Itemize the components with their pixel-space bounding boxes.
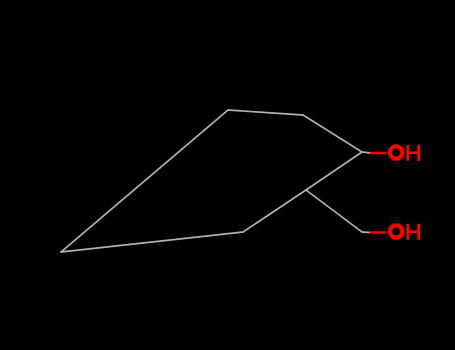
atom label O2 (lower OH) — [390, 225, 402, 237]
bond G-D — [243, 190, 306, 232]
bond D-E — [306, 190, 362, 232]
bond C-D — [306, 152, 362, 190]
bond B-C — [303, 115, 362, 152]
bond A-B top edge — [228, 110, 303, 115]
bond C-O1 gray half — [362, 152, 371, 153]
atom label H2 — [406, 224, 420, 240]
atom label H1 — [406, 145, 420, 161]
bond F-A long diagonal — [61, 110, 228, 252]
atom label O1 (upper OH) — [390, 146, 402, 158]
bond F-G bottom edge — [61, 232, 243, 252]
bond O2 red half — [370, 231, 387, 234]
wire — [61, 110, 371, 252]
bond O1 red half — [370, 152, 387, 155]
bond E-O2 gray half — [362, 231, 370, 234]
